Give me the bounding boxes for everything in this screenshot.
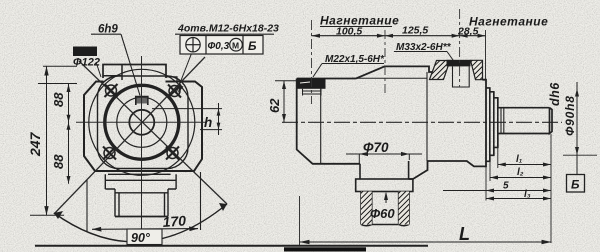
90 degree sector arc	[54, 204, 227, 242]
svg-text:4отв.М12-6Нх18-23: 4отв.М12-6Нх18-23	[177, 23, 279, 35]
top tab on flange	[103, 65, 166, 79]
bolt hole top-right	[168, 85, 181, 98]
lower bracket of front view	[105, 174, 176, 216]
bolt hole top-left	[105, 84, 118, 97]
arc arrowhead right	[219, 203, 227, 211]
port M33 thread hole	[453, 66, 470, 87]
svg-text:Б: Б	[248, 39, 257, 53]
svg-text:Ф0,3: Ф0,3	[208, 41, 230, 52]
dimension 62	[275, 80, 297, 82]
right shoulder line	[166, 77, 177, 82]
datum B box	[567, 175, 585, 193]
svg-text:l₃: l₃	[524, 189, 531, 200]
dimension l1	[498, 164, 551, 166]
extension line at 385	[384, 30, 386, 95]
dimension 170	[87, 172, 201, 232]
dimension F70	[346, 154, 422, 163]
svg-text:l₂: l₂	[517, 167, 524, 178]
feature control frame	[180, 36, 263, 55]
dimension 5	[443, 190, 551, 192]
hex hatch right	[399, 192, 409, 225]
svg-text:90°: 90°	[131, 231, 151, 245]
shaft hole circle	[129, 110, 154, 135]
inner circle	[117, 97, 167, 147]
boss F70	[356, 161, 413, 192]
label F122	[73, 47, 97, 57]
svg-text:247: 247	[27, 131, 43, 157]
interior vertical line left	[320, 79, 322, 164]
rounded square mounting face	[98, 76, 189, 169]
dimension l3	[486, 198, 551, 200]
body outline	[297, 66, 486, 179]
diagonal centerline 1 (lower-left to upper-right, sector edge)	[54, 57, 205, 214]
svg-text:125,5: 125,5	[402, 25, 428, 37]
shaft chamfer lines	[501, 108, 504, 134]
svg-text:88: 88	[51, 154, 66, 169]
extension lines for l dims	[486, 134, 551, 243]
keyway dark fill	[137, 97, 148, 104]
svg-text:88: 88	[51, 92, 66, 107]
bottom border line	[35, 245, 428, 247]
bolt hole bottom-right	[166, 147, 179, 160]
port M22 dark plug	[297, 78, 326, 89]
port M22 thread lines	[302, 89, 322, 96]
interior horizontal line under hump	[352, 77, 427, 79]
svg-text:L: L	[459, 224, 470, 244]
shaft	[498, 108, 552, 134]
dimension L	[300, 241, 552, 243]
dimension l2	[490, 177, 551, 179]
bolt hole bottom-left	[103, 147, 116, 160]
svg-text:h: h	[204, 115, 212, 130]
keyway slot	[136, 97, 148, 106]
diagonal centerline 2 (lower-right to upper-left, sector edge)	[79, 61, 227, 204]
svg-text:Б: Б	[571, 178, 580, 192]
port M33 dark plug band	[447, 60, 471, 67]
svg-text:Ф70: Ф70	[363, 140, 389, 155]
svg-text:Нагнетание: Нагнетание	[469, 15, 548, 29]
dimension h	[152, 103, 222, 135]
hex hatch left	[361, 192, 372, 225]
arc arrowhead left	[54, 211, 63, 219]
bolt circle (large thin circle)	[89, 69, 195, 175]
port M22 centerline	[311, 20, 313, 104]
svg-text:l₁: l₁	[516, 154, 523, 165]
bottom thick title block edge	[284, 247, 366, 251]
centerline vertical	[141, 56, 143, 246]
label 90 degrees	[127, 229, 162, 245]
right end flange steps	[486, 88, 498, 161]
svg-text:dh6: dh6	[548, 82, 562, 106]
svg-text:62: 62	[267, 98, 282, 113]
svg-text:Ф60: Ф60	[370, 206, 395, 221]
octagonal flange outline	[84, 82, 202, 172]
dimension 247	[30, 66, 77, 215]
hex fitting F60	[361, 192, 409, 226]
main axis centerline	[282, 121, 562, 123]
svg-text:100,5: 100,5	[336, 26, 362, 38]
port M33 right hatched wedge	[471, 60, 483, 79]
spigot circle (thick dark)	[105, 85, 179, 159]
centerline horizontal	[76, 121, 207, 123]
dimension 88 / 88	[38, 84, 77, 184]
interior vertical line right	[426, 72, 428, 161]
svg-text:170: 170	[162, 212, 187, 230]
port M33 left hatched wedge	[430, 61, 451, 80]
port M33 centerline	[459, 9, 461, 87]
svg-text:М: М	[232, 41, 239, 51]
svg-text:Ф90h8: Ф90h8	[563, 95, 577, 136]
svg-text:5: 5	[503, 181, 509, 192]
top dimension chain line	[312, 35, 486, 37]
tab interior step line	[103, 65, 122, 81]
extension line at flange face	[485, 30, 487, 80]
